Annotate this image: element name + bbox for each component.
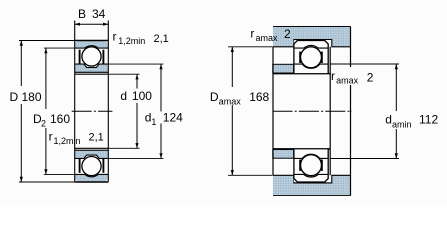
svg-text:124: 124: [163, 111, 183, 125]
svg-text:2,1: 2,1: [89, 132, 104, 144]
svg-text:1,2min: 1,2min: [54, 136, 81, 146]
svg-text:r: r: [49, 130, 53, 144]
svg-text:r: r: [331, 69, 335, 83]
svg-text:B: B: [78, 7, 86, 21]
svg-text:180: 180: [22, 90, 42, 104]
svg-text:d: d: [120, 89, 127, 103]
svg-text:2: 2: [41, 119, 46, 129]
svg-text:34: 34: [92, 7, 106, 21]
svg-text:r: r: [113, 30, 117, 44]
svg-text:2: 2: [284, 27, 291, 41]
svg-text:d: d: [385, 113, 392, 127]
svg-text:amax: amax: [219, 97, 242, 107]
svg-text:amax: amax: [256, 33, 279, 43]
svg-text:100: 100: [132, 89, 152, 103]
svg-text:D: D: [210, 90, 219, 104]
svg-text:2: 2: [367, 71, 374, 85]
svg-text:2,1: 2,1: [154, 33, 169, 45]
svg-text:1,2min: 1,2min: [118, 36, 145, 46]
svg-text:d: d: [145, 111, 152, 125]
svg-text:112: 112: [419, 113, 438, 127]
svg-text:amin: amin: [392, 120, 412, 130]
svg-text:1: 1: [151, 117, 156, 127]
svg-text:amax: amax: [336, 76, 359, 86]
svg-text:r: r: [250, 27, 254, 41]
svg-text:160: 160: [50, 112, 70, 126]
svg-text:D: D: [10, 90, 19, 104]
svg-text:168: 168: [249, 90, 269, 104]
